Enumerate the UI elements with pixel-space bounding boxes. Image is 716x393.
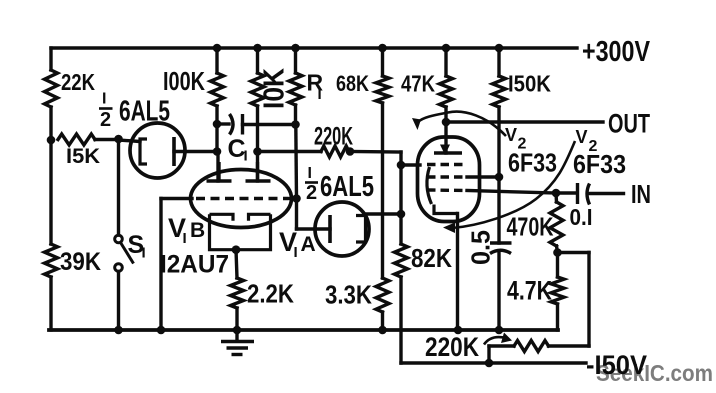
svg-text:22K: 22K: [61, 69, 95, 95]
svg-text:I: I: [318, 86, 322, 103]
svg-text:2: 2: [306, 182, 317, 204]
svg-text:6AL5: 6AL5: [119, 96, 170, 128]
svg-text:470K: 470K: [507, 212, 554, 242]
svg-text:A: A: [301, 233, 316, 256]
svg-text:I: I: [102, 91, 106, 108]
svg-text:2.2K: 2.2K: [247, 279, 294, 309]
svg-text:6F33: 6F33: [573, 149, 626, 179]
svg-text:47K: 47K: [401, 71, 435, 97]
svg-text:I00K: I00K: [163, 66, 205, 96]
svg-text:I: I: [308, 165, 312, 182]
svg-text:6AL5: 6AL5: [320, 171, 374, 203]
svg-text:I: I: [142, 245, 146, 262]
svg-text:68K: 68K: [336, 71, 369, 96]
svg-text:I2AU7: I2AU7: [160, 251, 229, 279]
svg-text:220K: 220K: [314, 123, 353, 151]
svg-text:0.5: 0.5: [466, 230, 496, 265]
svg-text:4.7K: 4.7K: [507, 276, 552, 306]
svg-text:V: V: [505, 125, 517, 145]
svg-text:I: I: [183, 230, 187, 247]
svg-text:I50K: I50K: [508, 71, 551, 97]
svg-text:B: B: [190, 219, 205, 242]
svg-text:6F33: 6F33: [508, 148, 557, 178]
svg-text:82K: 82K: [411, 243, 452, 273]
svg-text:V: V: [576, 127, 588, 147]
svg-text:-I50V: -I50V: [586, 350, 647, 380]
svg-text:0.I: 0.I: [570, 204, 593, 230]
svg-text:3.3K: 3.3K: [325, 280, 372, 310]
svg-text:220K: 220K: [425, 332, 479, 362]
svg-text:IN: IN: [631, 179, 651, 209]
svg-text:2: 2: [100, 109, 111, 131]
svg-text:I0K: I0K: [259, 68, 291, 109]
svg-text:OUT: OUT: [608, 109, 650, 139]
svg-text:+300V: +300V: [582, 36, 651, 68]
svg-text:39K: 39K: [60, 248, 101, 276]
svg-text:I: I: [244, 148, 248, 165]
svg-text:I: I: [294, 244, 298, 261]
svg-text:I5K: I5K: [66, 145, 100, 168]
